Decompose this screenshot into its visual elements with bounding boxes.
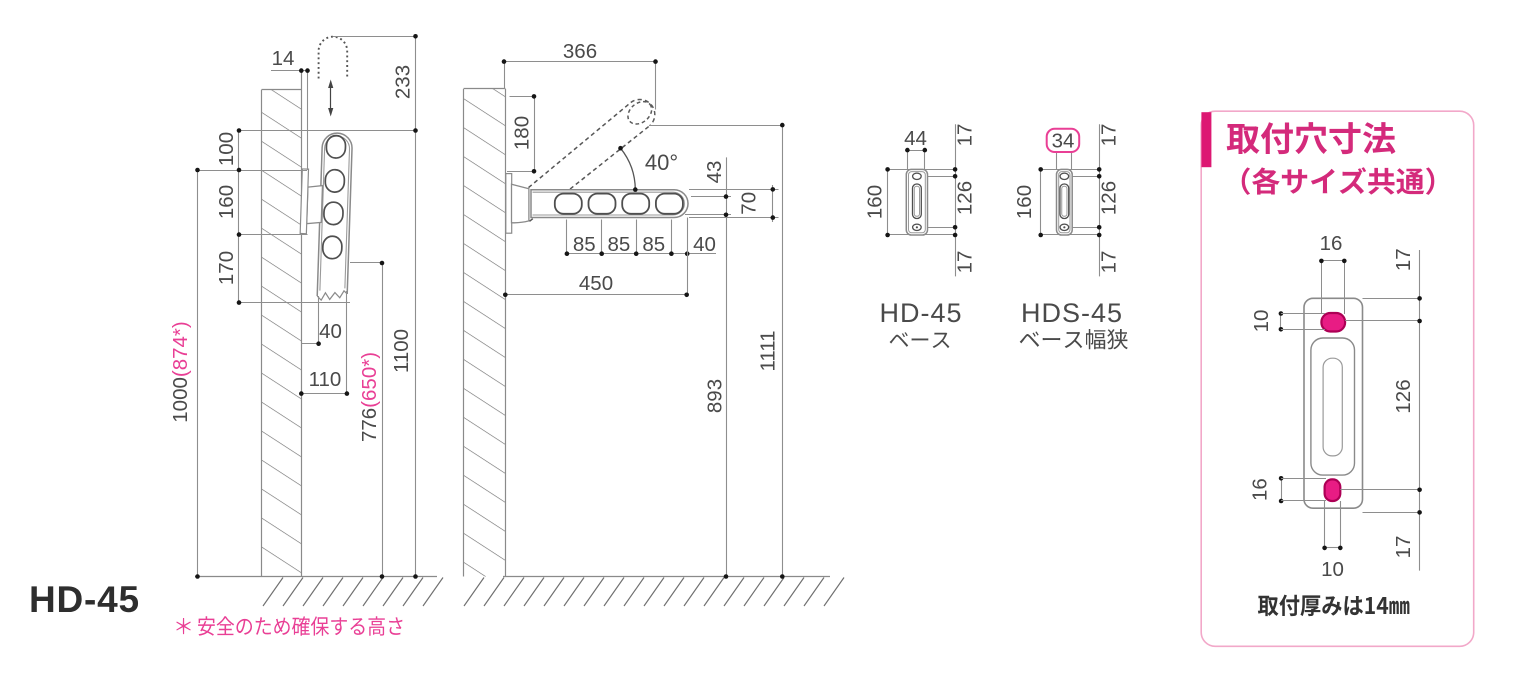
svg-text:34: 34 — [1052, 130, 1075, 153]
svg-text:85: 85 — [573, 233, 596, 256]
svg-text:10: 10 — [1321, 558, 1344, 581]
svg-text:HD-45: HD-45 — [29, 579, 140, 620]
svg-text:160: 160 — [1013, 185, 1036, 219]
svg-text:HD-45: HD-45 — [879, 298, 962, 328]
svg-text:450: 450 — [579, 272, 613, 295]
svg-text:10: 10 — [1250, 310, 1273, 333]
svg-text:160: 160 — [864, 185, 887, 219]
svg-text:126: 126 — [1098, 181, 1121, 215]
svg-text:16: 16 — [1249, 478, 1272, 501]
svg-text:70: 70 — [738, 192, 761, 215]
svg-text:17: 17 — [1098, 251, 1121, 274]
svg-text:17: 17 — [954, 124, 977, 147]
svg-text:85: 85 — [607, 233, 630, 256]
svg-text:126: 126 — [954, 181, 977, 215]
svg-text:17: 17 — [1392, 248, 1415, 271]
svg-text:233: 233 — [392, 65, 415, 99]
svg-text:160: 160 — [215, 185, 238, 219]
svg-text:1100: 1100 — [390, 329, 413, 373]
svg-text:893: 893 — [704, 379, 727, 413]
svg-text:16: 16 — [1320, 232, 1343, 255]
svg-text:17: 17 — [1392, 536, 1415, 559]
svg-text:100: 100 — [215, 132, 238, 166]
svg-text:110: 110 — [309, 368, 342, 391]
svg-text:1111: 1111 — [757, 330, 780, 371]
svg-text:14: 14 — [272, 47, 295, 70]
svg-text:44: 44 — [904, 127, 927, 150]
svg-text:40°: 40° — [645, 150, 678, 175]
svg-text:1000(874*): 1000(874*) — [169, 321, 192, 422]
svg-text:HDS-45: HDS-45 — [1021, 298, 1123, 328]
svg-text:126: 126 — [1392, 379, 1415, 413]
svg-text:170: 170 — [215, 251, 238, 285]
svg-text:43: 43 — [703, 161, 726, 184]
svg-text:40: 40 — [693, 233, 716, 256]
svg-text:776(650*): 776(650*) — [358, 352, 381, 442]
svg-text:17: 17 — [954, 251, 977, 274]
svg-text:366: 366 — [563, 40, 597, 63]
svg-text:180: 180 — [511, 116, 534, 150]
svg-text:17: 17 — [1098, 124, 1121, 147]
svg-text:40: 40 — [319, 320, 342, 343]
svg-text:85: 85 — [642, 233, 665, 256]
